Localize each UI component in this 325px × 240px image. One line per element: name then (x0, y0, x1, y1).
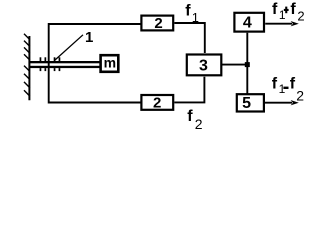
wire loop from gauges to amplifiers (49, 24, 141, 103)
box 4 (234, 13, 264, 32)
pointer line to label 1 (55, 35, 83, 60)
box 5 (237, 94, 264, 112)
svg-text:f: f (290, 76, 296, 93)
svg-text:m: m (104, 55, 116, 71)
svg-text:2: 2 (195, 116, 203, 132)
svg-text:2: 2 (154, 15, 162, 32)
svg-text:4: 4 (243, 14, 252, 31)
svg-text:f: f (185, 3, 191, 20)
wire box2 top to box 3 (174, 23, 205, 53)
box 3 (187, 55, 222, 76)
output arrow f1-f2 (265, 100, 299, 105)
svg-text:1: 1 (85, 29, 93, 46)
beam (cantilever, double line) (29, 61, 100, 68)
amplifier box 2 (top) (141, 15, 173, 32)
svg-text:5: 5 (242, 95, 251, 112)
junction node (245, 62, 250, 67)
svg-text:f: f (187, 108, 193, 125)
svg-text:2: 2 (297, 9, 304, 24)
wire box3 to junction (222, 64, 248, 66)
svg-text:f: f (272, 76, 278, 93)
svg-text:f: f (290, 1, 296, 18)
svg-text:1: 1 (279, 82, 286, 96)
strain gauge ticks (40, 57, 61, 71)
wall (fixed support) (24, 34, 30, 101)
amplifier box 2 (bottom) (141, 94, 173, 111)
mass box m (101, 55, 119, 72)
svg-text:1: 1 (192, 10, 199, 25)
wire junction vertical (box4 to box5) (246, 33, 248, 94)
svg-text:3: 3 (199, 57, 208, 74)
svg-text:2: 2 (296, 88, 304, 104)
svg-text:2: 2 (153, 94, 161, 111)
svg-text:f: f (272, 1, 278, 18)
output arrow f1+f2 (265, 21, 299, 26)
wire box2 bottom to box 3 (174, 77, 204, 103)
